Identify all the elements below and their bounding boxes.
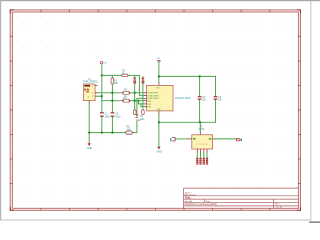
window top strip [0, 0, 320, 1]
junction diodeL/wireB [134, 100, 136, 102]
junction comp pin2 [101, 95, 103, 97]
junction wireB stub [138, 100, 140, 102]
junction dots [88, 74, 201, 134]
wire J1 left [176, 138, 189, 140]
resistor R3 horizontal (wire A) [123, 89, 130, 98]
svg-text:ATtiny25-20SU: ATtiny25-20SU [175, 97, 191, 100]
sheet frame margin tint [10, 10, 300, 210]
wire J1 top feed [199, 122, 201, 132]
capacitor C4 [214, 96, 223, 102]
grid dots [16, 16, 297, 200]
wire C4 bottom [215, 100, 217, 123]
junction R1/wireB [111, 100, 113, 102]
wire R1 chain vertical [111, 75, 113, 78]
connector J1 [192, 125, 213, 149]
wire pin6 stub [141, 104, 144, 107]
junction bus3 [88, 131, 90, 133]
svg-text:ICSP: ICSP [199, 128, 205, 131]
svg-text:Title:: Title: [185, 196, 191, 200]
wire bottom horizontal [159, 121, 216, 123]
svg-text:(XTAL1)PB3: (XTAL1)PB3 [147, 94, 159, 97]
junction bottom/gnd [158, 121, 160, 123]
svg-text:100: 100 [127, 128, 132, 131]
J1 left net label [170, 138, 175, 142]
svg-text:GND: GND [157, 151, 163, 154]
power +5V symbol center [156, 58, 160, 61]
window left strip [0, 0, 1, 220]
resistor R5 on ground bus [126, 126, 133, 135]
svg-text:KiCad E.D.A. eeschema (2010): KiCad E.D.A. eeschema (2010) [185, 203, 217, 206]
svg-text:Id: 1/1: Id: 1/1 [277, 206, 284, 208]
junction rail2/C3 [198, 75, 200, 77]
svg-text:GND: GND [87, 147, 93, 150]
wire rail1 horizontal [102, 74, 122, 76]
J1 pin stubs [189, 132, 216, 153]
junction bus1 [101, 131, 103, 133]
J1 bottom net labels vertical [196, 158, 208, 165]
LED D3 vertical [136, 115, 140, 121]
wire diodeR top stub [142, 77, 144, 78]
IC U1 ATtiny [147, 85, 191, 111]
resistor R7 vertical below IC [140, 110, 145, 121]
wire C3 top [199, 76, 201, 96]
wire gnd2 vertical [158, 114, 160, 147]
svg-text:10u: 10u [202, 99, 207, 102]
wire rail2 [159, 75, 216, 77]
wire VCC vertical [158, 62, 160, 83]
sheet frame outer [10, 10, 300, 210]
page edge bottom [0, 219, 311, 220]
capacitor C2 [111, 112, 122, 118]
svg-text:PWR_SUPPLY: PWR_SUPPLY [83, 82, 99, 84]
junction bus2 [111, 131, 113, 133]
wire battery bottom [88, 103, 90, 133]
junction bottom/J1 [199, 121, 201, 123]
J1 right net label arrow [237, 139, 242, 142]
title block [184, 188, 299, 208]
wire +5V left vertical upper [101, 65, 103, 113]
wire pin5 stub [139, 101, 144, 104]
svg-text:Size: A4: Size: A4 [185, 200, 193, 203]
wire C4 top [215, 76, 217, 96]
wire diodeL vertical [134, 75, 136, 77]
svg-text:(XTAL2)PB4: (XTAL2)PB4 [147, 97, 159, 100]
svg-text:Rev:: Rev: [275, 204, 280, 206]
wire gnd bus [89, 132, 126, 134]
wire J1 right [216, 138, 237, 140]
diode D1 vertical [133, 78, 136, 83]
sheet frame inner [12, 12, 298, 208]
wire led up [137, 98, 144, 114]
svg-text:100n: 100n [105, 115, 111, 118]
title block outline [184, 187, 299, 189]
wire rail1 drop [139, 75, 143, 95]
ground symbol left [87, 143, 93, 150]
frame corner accents [10, 10, 300, 210]
power connector P1 [83, 78, 99, 100]
svg-text:VCC: VCC [156, 87, 161, 89]
wire +5V left vertical lower (below C1) [101, 117, 103, 133]
wire C3 bottom [199, 100, 201, 123]
U1 pin stubs [144, 82, 159, 114]
page edge right [310, 0, 311, 221]
wire gnd stub left [88, 133, 90, 143]
svg-text:RESET/PB5: RESET/PB5 [147, 93, 159, 95]
wire J1 bottom pins [196, 152, 198, 157]
svg-text:LED: LED [140, 119, 145, 121]
junction diodeL/wireA [134, 92, 136, 94]
svg-text:+5V: +5V [156, 58, 160, 60]
svg-text:Date:: Date: [206, 200, 211, 203]
bottom-right gray corner patch [309, 221, 320, 223]
svg-text:10u: 10u [218, 99, 223, 102]
ground symbol center [157, 147, 163, 154]
diode D2 vertical [142, 78, 145, 83]
wire comp pin2 short [97, 95, 102, 97]
resistor R1 vertical [111, 78, 119, 85]
svg-text:+5V: +5V [103, 62, 107, 64]
power +5V symbol left [100, 61, 107, 64]
wire A [98, 92, 123, 94]
resistor R6 vertical below IC [133, 110, 136, 115]
resistor R4 horizontal (wire B) [123, 97, 130, 102]
resistor R2 horizontal on rail [122, 70, 128, 77]
capacitor C3 [198, 96, 207, 102]
wire B [102, 100, 123, 102]
frame zone ticks top/bottom [10, 10, 300, 210]
svg-text:100n: 100n [115, 115, 121, 118]
P1 pin stubs [89, 86, 97, 103]
wires green [89, 62, 236, 158]
junction rail1/left [101, 74, 103, 76]
svg-text:GND: GND [156, 109, 161, 111]
capacitor C1 [100, 112, 111, 118]
junction VCC/rail2 [158, 75, 160, 77]
wire diodeR vertical [142, 84, 144, 110]
junction R1/wireA [111, 92, 113, 94]
